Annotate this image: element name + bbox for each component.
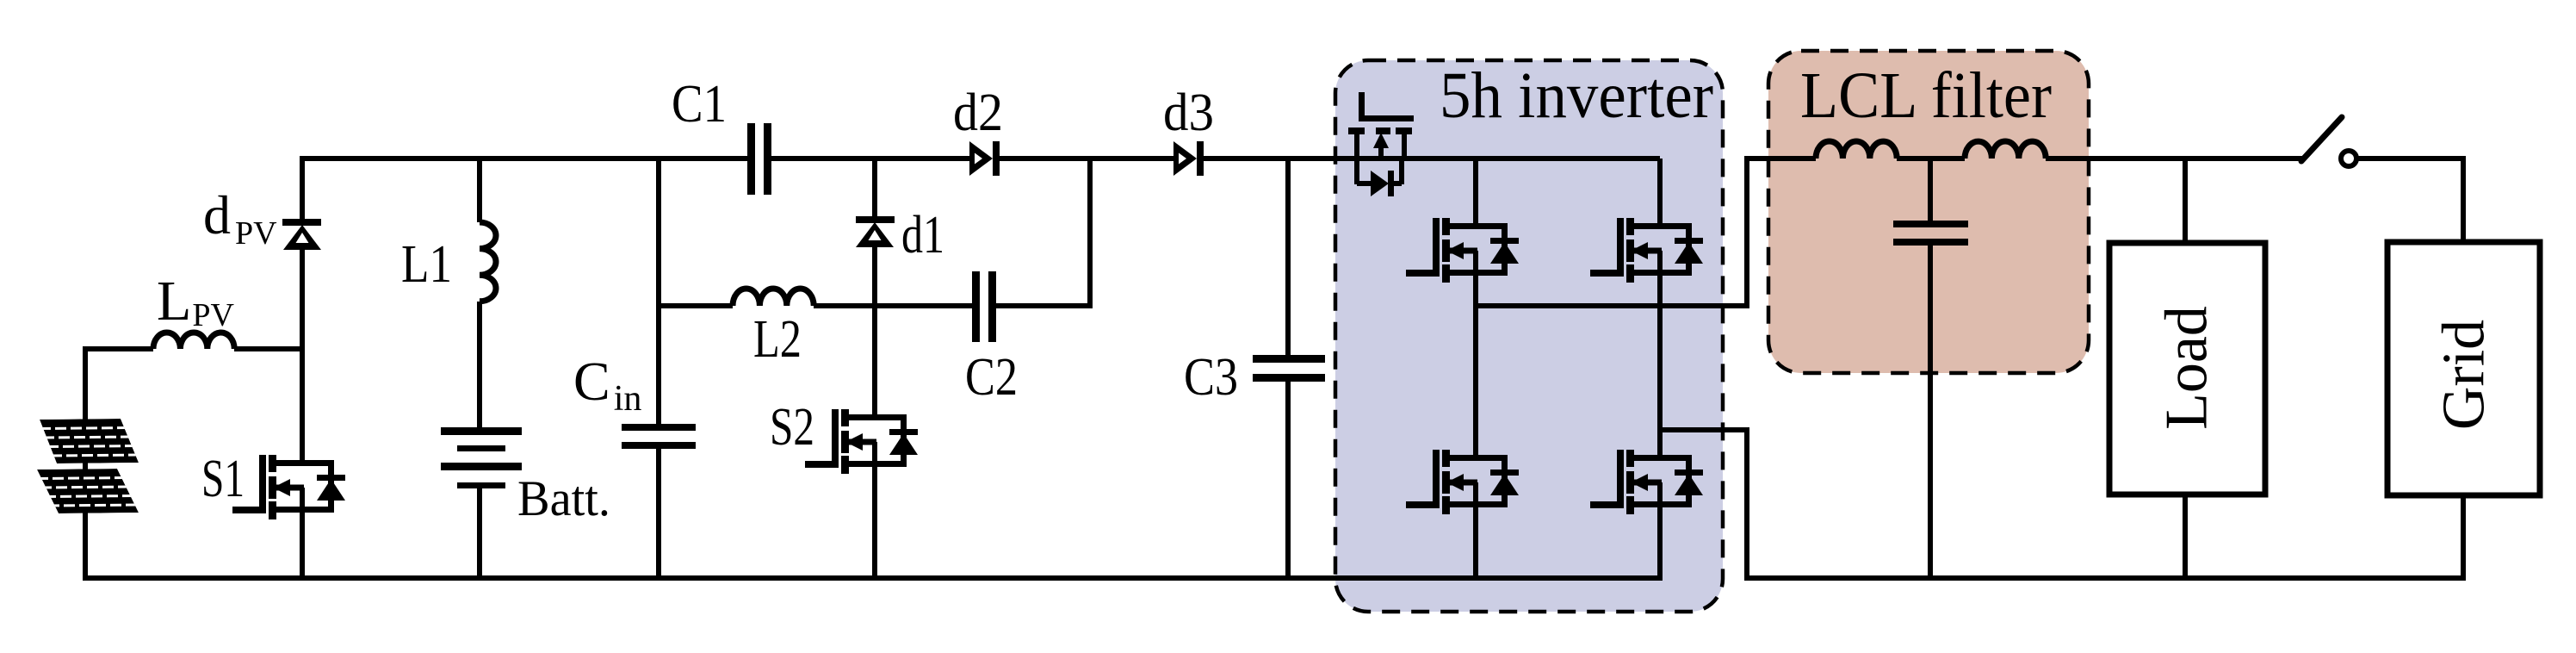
inductor LCL Li <box>1816 141 1897 159</box>
wire output A up leg <box>1744 159 1749 306</box>
wire LCL to switch <box>2046 156 2304 161</box>
svg-text:Grid: Grid <box>2431 320 2498 430</box>
wire top bus segment 4 <box>1204 156 1660 161</box>
wire bottom bus right part <box>1744 575 2466 581</box>
diode d1 <box>856 216 895 247</box>
capacitor Cin <box>622 424 696 449</box>
wire Cin vertical bottom <box>656 449 661 578</box>
wire d1 to S2 <box>872 246 877 418</box>
svg-text:C1: C1 <box>672 75 727 134</box>
svg-text:S1: S1 <box>201 450 245 508</box>
svg-text:Load: Load <box>2154 306 2220 430</box>
diode dPV <box>282 219 321 250</box>
wire top bus segment 2 <box>771 156 974 161</box>
wire Lpv line right <box>234 346 302 351</box>
capacitor LCL Cf <box>1893 221 1968 246</box>
svg-text:Batt.: Batt. <box>517 470 610 526</box>
wire dpv vertical mid <box>300 249 305 463</box>
wire battery to bottom <box>477 487 482 578</box>
wire load branch bottom <box>2183 494 2188 578</box>
wire bridge left leg bottom <box>1473 482 1478 578</box>
wire dpv vertical top <box>300 159 305 220</box>
transistor lower-right of H-bridge <box>1590 450 1703 514</box>
svg-text:L1: L1 <box>401 235 452 294</box>
5h inverter block background <box>1335 60 1723 612</box>
inductor LCL Lg <box>1965 141 2046 159</box>
wire load branch top <box>2183 159 2188 243</box>
wire d1 vertical top <box>872 159 877 217</box>
wire grid branch bottom <box>2461 494 2466 578</box>
wire S2 to bottom <box>872 442 877 578</box>
diode d3 <box>1173 141 1204 176</box>
wire bridge left leg top <box>1473 159 1478 227</box>
svg-text:d2: d2 <box>953 84 1003 142</box>
wire top bus segment 3 <box>1000 156 1177 161</box>
transistor upper-left of H-bridge <box>1406 218 1519 283</box>
wire L1 to battery <box>477 302 482 429</box>
wire L2 line mid <box>814 303 972 308</box>
wire Lpv line left <box>83 346 153 351</box>
capacitor C2 <box>972 271 996 342</box>
inductor L1 <box>480 222 496 302</box>
wire LCL cap bottom <box>1928 246 1933 578</box>
svg-text:LCL filter: LCL filter <box>1800 59 2052 132</box>
LCL filter block background <box>1768 51 2089 373</box>
inductor Lpv <box>153 333 234 349</box>
wire top bus segment 1 <box>300 156 747 161</box>
capacitor C1 <box>747 123 771 195</box>
PV panel (two modules) <box>37 419 141 513</box>
wire C3 vertical top <box>1285 159 1291 356</box>
capacitor C3 <box>1253 355 1325 382</box>
wire bridge mid rail (output A) <box>1473 303 1749 308</box>
inductor L2 <box>733 289 814 306</box>
wire PV left vertical <box>83 349 88 578</box>
svg-text:d1: d1 <box>901 206 944 264</box>
wire L1 vertical top <box>477 159 482 222</box>
wire output A top segment <box>1744 156 1816 161</box>
battery Batt. <box>441 427 522 488</box>
wire bridge right leg mid <box>1657 251 1663 458</box>
wire between LCL coils <box>1897 156 1965 161</box>
wire C2 right vertical <box>1087 159 1093 306</box>
transistor S5 series switch of 5h inverter <box>1348 92 1414 196</box>
wire bridge left leg mid <box>1473 251 1478 458</box>
wire C3 vertical bottom <box>1285 382 1291 578</box>
wire bottom bus left part <box>83 575 1663 581</box>
transistor lower-left of H-bridge <box>1406 450 1519 514</box>
svg-text:5h inverter: 5h inverter <box>1440 59 1713 132</box>
transistor upper-right of H-bridge <box>1590 218 1703 283</box>
svg-text:C2: C2 <box>965 348 1018 407</box>
Load box <box>2109 243 2265 494</box>
svg-text:S2: S2 <box>770 398 814 457</box>
wire LCL cap top <box>1928 159 1933 221</box>
wire C2 to right vertical <box>996 303 1093 308</box>
wire bridge right leg top <box>1657 159 1663 227</box>
wire grid branch top <box>2461 159 2466 243</box>
wire switch to grid <box>2356 156 2466 161</box>
switch blade <box>2301 117 2356 166</box>
transistor S2 <box>805 409 918 474</box>
svg-text:L2: L2 <box>753 310 802 369</box>
diode d2 <box>969 141 1000 176</box>
Grid box <box>2387 242 2540 495</box>
wire bridge right leg bottom <box>1657 482 1663 578</box>
wire Cin vertical top <box>656 159 661 426</box>
wire L2 line left <box>659 303 733 308</box>
svg-text:C3: C3 <box>1184 348 1238 407</box>
wire output B down leg <box>1744 430 1749 578</box>
wire output B horizontal <box>1657 427 1749 432</box>
svg-text:d3: d3 <box>1163 84 1214 142</box>
wire S1 vertical bottom <box>300 488 305 578</box>
transistor S1 <box>232 455 345 519</box>
